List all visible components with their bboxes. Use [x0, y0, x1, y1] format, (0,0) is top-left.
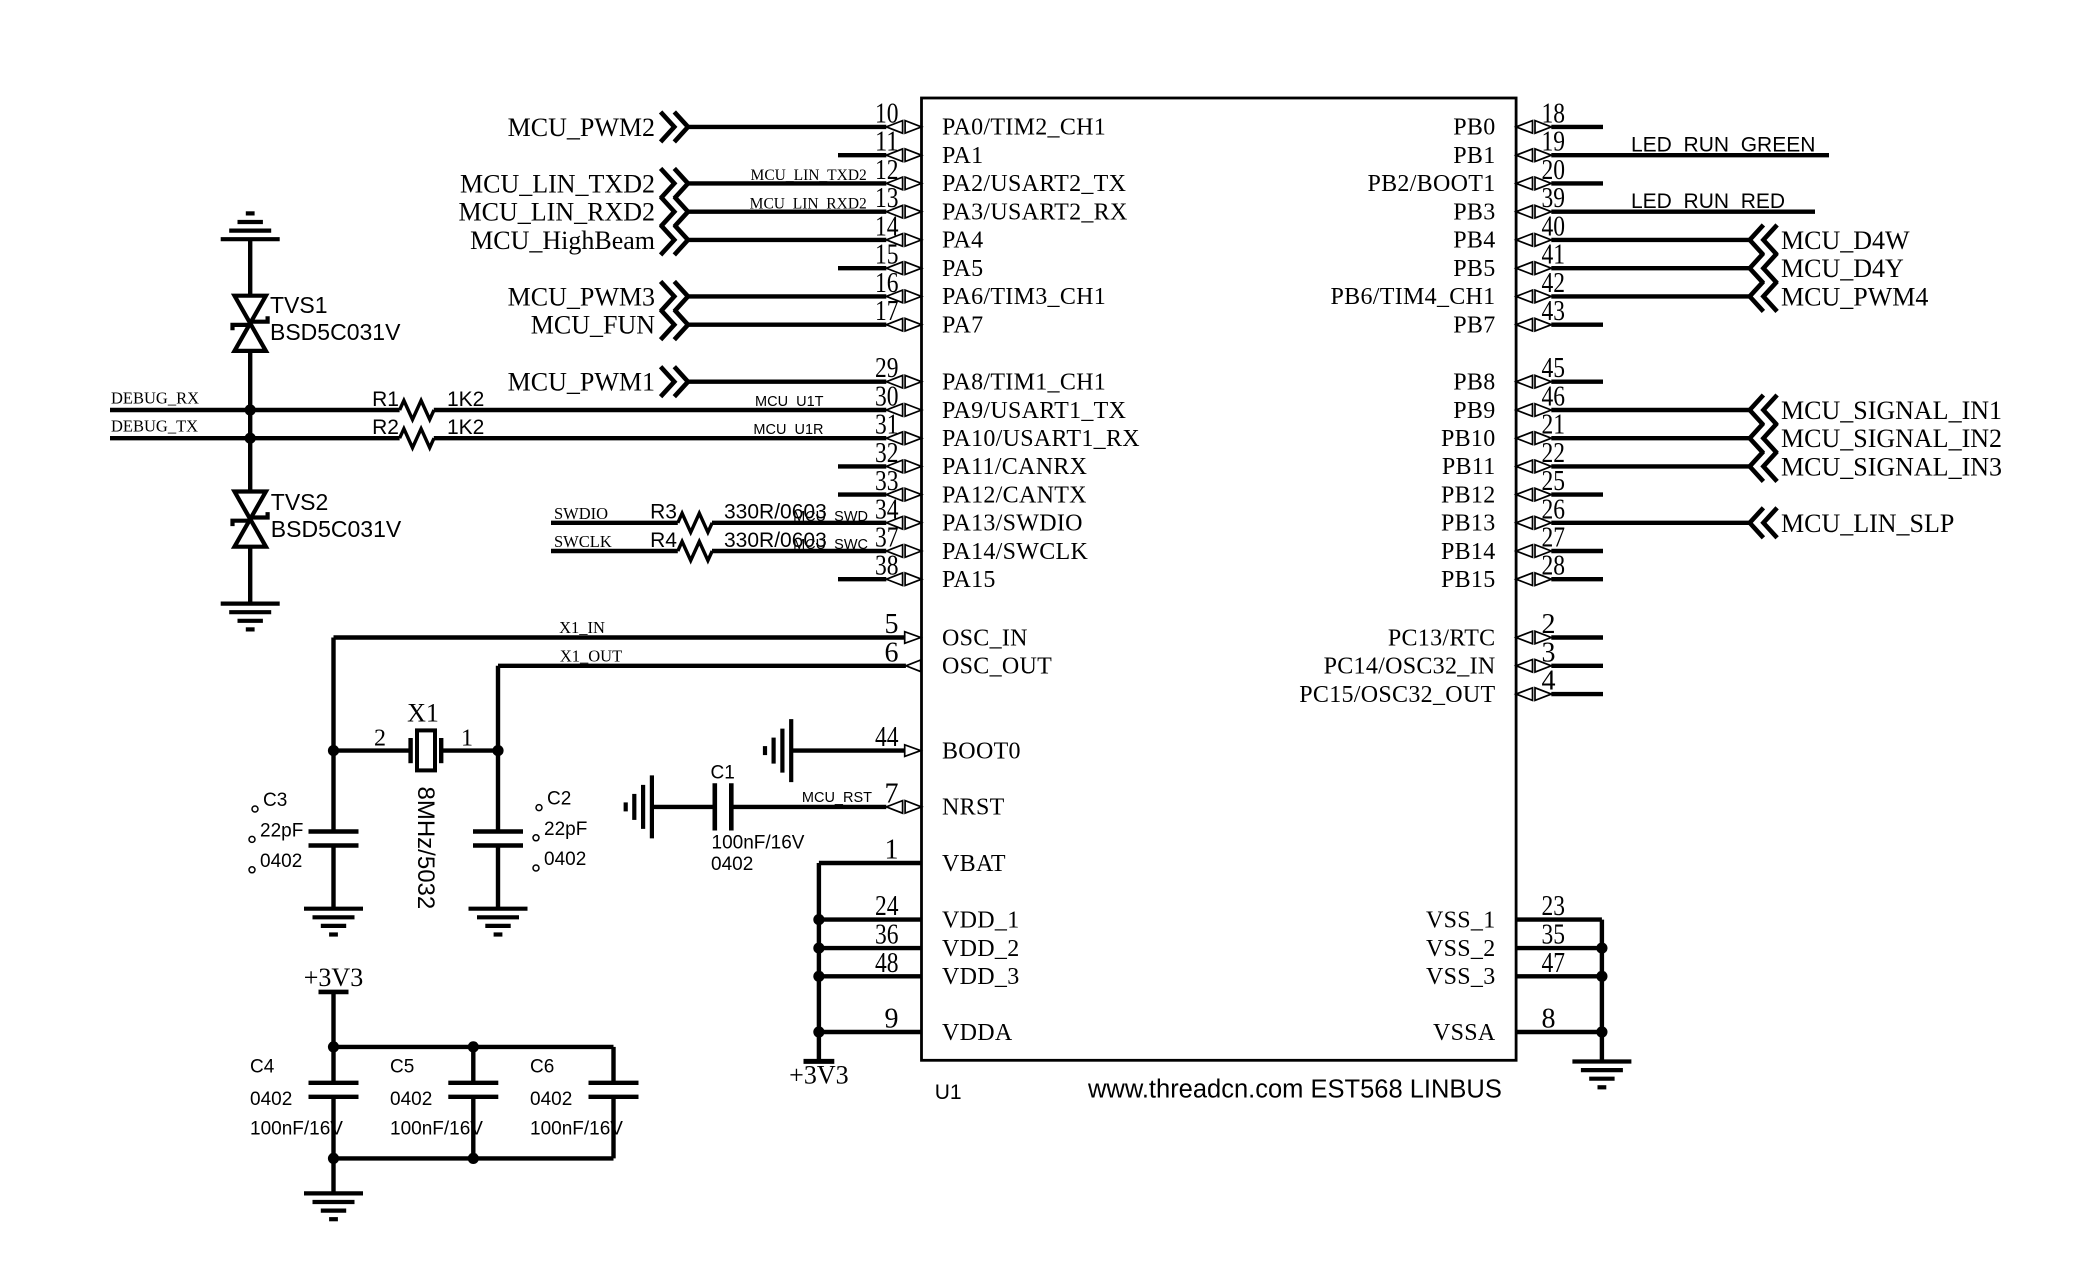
wire right rail down	[496, 666, 500, 751]
capacitor C1	[715, 783, 732, 830]
port MCU_LIN_TXD2	[460, 168, 688, 198]
resistor R2	[400, 429, 434, 448]
wire to TVS2	[248, 438, 252, 491]
svg-text:C5: C5	[390, 1056, 414, 1077]
wire crystal pin1	[441, 748, 498, 752]
svg-text:0402: 0402	[544, 849, 586, 870]
wire	[611, 1097, 615, 1159]
pin 37 PA14/SWCLK	[875, 523, 1089, 565]
wire stub	[1551, 664, 1603, 668]
port MCU_D4W	[1750, 225, 1910, 255]
pin 40 PB4	[1453, 211, 1565, 253]
wire MCU_PWM1 to pin	[688, 380, 886, 384]
svg-text:OSC_OUT: OSC_OUT	[942, 654, 1052, 680]
svg-text:MCU_PWM3: MCU_PWM3	[508, 282, 655, 311]
svg-text:PA7: PA7	[942, 313, 983, 339]
wire MCU_D4W	[1551, 238, 1749, 242]
wire	[471, 1047, 475, 1083]
svg-text:BSD5C031V: BSD5C031V	[270, 319, 401, 345]
wire to ground	[331, 1158, 335, 1193]
wire X1_IN	[334, 635, 905, 639]
wire	[331, 1097, 335, 1159]
pin 1 VBAT	[885, 835, 1006, 877]
wire stub	[1551, 635, 1603, 639]
pin 25 PB12	[1441, 466, 1565, 508]
svg-text:PB5: PB5	[1453, 256, 1495, 282]
svg-text:MCU_PWM4: MCU_PWM4	[1781, 282, 1928, 311]
wire top rail	[334, 1045, 614, 1049]
pin 19 PB1	[1453, 127, 1565, 169]
IC U1 MCU body	[922, 98, 1517, 1060]
pin 21 PB10	[1441, 410, 1565, 452]
wire TVS2 to ground	[248, 547, 252, 603]
pin 23 VSS_1	[1426, 891, 1565, 933]
pin 24 VDD_1	[875, 891, 1020, 933]
svg-text:1: 1	[461, 725, 473, 751]
capacitor C3	[309, 832, 359, 846]
svg-text:R4: R4	[650, 529, 677, 552]
wire LED_RUN_RED	[1551, 209, 1815, 213]
svg-text:NRST: NRST	[942, 795, 1005, 821]
wire MCU_PWM3 to pin	[688, 294, 886, 298]
wire BOOT0	[791, 748, 905, 752]
wire MCU_D4Y	[1551, 266, 1749, 270]
wire MCU_SWC	[712, 549, 886, 553]
capacitor C2	[473, 832, 523, 846]
pin 3 PC14/OSC32_IN	[1324, 637, 1556, 679]
wire ground to TVS1	[248, 239, 252, 295]
pin 35 VSS_2	[1426, 920, 1565, 962]
pin 41 PB5	[1453, 240, 1565, 282]
ground (BOOT0)	[765, 719, 791, 782]
svg-text:PB2/BOOT1: PB2/BOOT1	[1367, 171, 1495, 197]
svg-text:PB14: PB14	[1441, 539, 1496, 565]
wire MCU_RST	[731, 805, 886, 809]
pin 13 PA3/USART2_RX	[875, 183, 1128, 225]
wire stub	[1551, 181, 1603, 185]
svg-text:MCU_PWM2: MCU_PWM2	[508, 113, 655, 142]
wire stub	[838, 464, 886, 468]
capacitor C6	[589, 1083, 639, 1097]
svg-text:PA12/CANTX: PA12/CANTX	[942, 482, 1087, 508]
wire VDD	[819, 1030, 922, 1034]
pin 32 PA11/CANRX	[875, 438, 1087, 480]
svg-text:MCU_SIGNAL_IN1: MCU_SIGNAL_IN1	[1781, 396, 2002, 425]
wire stub	[1551, 380, 1603, 384]
svg-text:MCU_LIN_SLP: MCU_LIN_SLP	[1781, 509, 1954, 538]
svg-text:BSD5C031V: BSD5C031V	[271, 516, 402, 542]
wire stub	[838, 492, 886, 496]
wire +3V3 rail	[817, 863, 821, 1061]
svg-text:0402: 0402	[711, 854, 753, 875]
svg-text:PB13: PB13	[1441, 511, 1496, 537]
svg-text:VDD_2: VDD_2	[942, 936, 1020, 962]
svg-text:R1: R1	[372, 388, 399, 411]
svg-text:MCU_SIGNAL_IN3: MCU_SIGNAL_IN3	[1781, 452, 2002, 481]
wire VSS	[1516, 974, 1602, 978]
svg-text:X1_OUT: X1_OUT	[560, 646, 622, 665]
junction VDD rail	[813, 1026, 824, 1037]
wire SWDIO	[551, 521, 678, 525]
junction VSS rail	[1596, 1026, 1607, 1037]
svg-text:MCU_D4W: MCU_D4W	[1781, 226, 1910, 255]
resistor R3	[678, 513, 712, 532]
wire X1_OUT	[498, 664, 906, 668]
svg-text:22pF: 22pF	[544, 819, 587, 840]
svg-text:SWCLK: SWCLK	[554, 532, 612, 551]
svg-text:C3: C3	[263, 790, 287, 811]
svg-text:U1: U1	[935, 1081, 962, 1104]
svg-text:R2: R2	[372, 416, 399, 439]
port MCU_SIGNAL_IN1	[1750, 395, 2002, 425]
junction VSS rail	[1596, 943, 1607, 954]
svg-text:0402: 0402	[250, 1089, 292, 1110]
svg-text:7: 7	[885, 778, 899, 809]
ground (C3)	[304, 909, 363, 935]
pin 30 PA9/USART1_TX	[875, 382, 1126, 424]
wire stub	[838, 153, 886, 157]
ground (VSS)	[1572, 1062, 1631, 1088]
svg-text:+3V3: +3V3	[304, 963, 363, 992]
port MCU_FUN	[531, 310, 688, 340]
pin 15 PA5	[875, 240, 983, 282]
svg-text:DEBUG_RX: DEBUG_RX	[111, 389, 199, 408]
svg-text:TVS1: TVS1	[270, 292, 328, 318]
svg-text:PB15: PB15	[1441, 567, 1496, 593]
junction VDD rail	[813, 914, 824, 925]
junction C4 bottom	[328, 1153, 339, 1164]
wire MCU_HighBeam to pin	[688, 238, 886, 242]
svg-text:LED_RUN_RED: LED_RUN_RED	[1631, 190, 1785, 213]
svg-text:MCU_LIN_TXD2: MCU_LIN_TXD2	[751, 167, 867, 184]
svg-text:PA10/USART1_RX: PA10/USART1_RX	[942, 426, 1140, 452]
svg-text:0402: 0402	[390, 1089, 432, 1110]
wire stub	[1551, 577, 1603, 581]
svg-text:X1_IN: X1_IN	[559, 618, 605, 637]
pin 4 PC15/OSC32_OUT	[1299, 666, 1555, 708]
svg-text:PA6/TIM3_CH1: PA6/TIM3_CH1	[942, 284, 1106, 310]
svg-text:PA8/TIM1_CH1: PA8/TIM1_CH1	[942, 370, 1106, 396]
svg-text:100nF/16V: 100nF/16V	[712, 832, 805, 853]
pin 38 PA15	[875, 551, 996, 593]
pin 45 PB8	[1453, 353, 1565, 395]
svg-text:MCU_LIN_RXD2: MCU_LIN_RXD2	[459, 198, 655, 227]
wire stub	[1551, 492, 1603, 496]
svg-text:+3V3: +3V3	[789, 1061, 848, 1090]
port MCU_HighBeam	[470, 225, 688, 255]
wire MCU_PWM4	[1551, 294, 1749, 298]
svg-text:C6: C6	[530, 1056, 554, 1077]
wire DEBUG_RX	[110, 408, 400, 412]
svg-text:PA4: PA4	[942, 228, 983, 254]
wire MCU_PWM2 to pin	[688, 125, 886, 129]
pin 11 PA1	[875, 127, 983, 169]
wire stub	[838, 577, 886, 581]
pin 20 PB2/BOOT1	[1367, 155, 1565, 197]
svg-text:PC14/OSC32_IN: PC14/OSC32_IN	[1324, 654, 1496, 680]
pin 12 PA2/USART2_TX	[875, 155, 1126, 197]
wire MCU_LIN_TXD2 to pin	[688, 181, 886, 185]
wire down to C3	[331, 751, 335, 832]
wire SWCLK	[551, 549, 678, 553]
svg-text:PB4: PB4	[1453, 228, 1495, 254]
port MCU_PWM3	[508, 281, 688, 311]
crystal X1	[411, 730, 442, 770]
wire C3 to ground	[331, 846, 335, 909]
svg-text:0402: 0402	[260, 851, 302, 872]
resistor R4	[678, 542, 712, 561]
svg-text:MCU_LIN_TXD2: MCU_LIN_TXD2	[460, 169, 655, 198]
junction DEBUG_RX	[245, 404, 256, 415]
svg-text:PA3/USART2_RX: PA3/USART2_RX	[942, 200, 1128, 226]
wire VSS	[1516, 946, 1602, 950]
ground (C4)	[304, 1193, 363, 1219]
TVS diode TVS1	[233, 296, 268, 351]
port MCU_PWM4	[1750, 281, 1929, 311]
svg-text:BOOT0: BOOT0	[942, 738, 1021, 764]
pin 46 PB9	[1453, 382, 1565, 424]
svg-text:PB9: PB9	[1453, 398, 1495, 424]
pin 26 PB13	[1441, 494, 1565, 536]
resistor R1	[400, 401, 434, 420]
wire stub	[1551, 549, 1603, 553]
junction C5 bottom	[468, 1153, 479, 1164]
svg-text:C4: C4	[250, 1056, 275, 1077]
ground (below TVS2)	[221, 604, 280, 630]
svg-text:VDD_3: VDD_3	[942, 964, 1020, 990]
wire MCU_FUN to pin	[688, 323, 886, 327]
svg-text:MCU_D4Y: MCU_D4Y	[1781, 254, 1904, 283]
svg-text:1K2: 1K2	[447, 416, 484, 439]
pin 34 PA13/SWDIO	[875, 494, 1083, 536]
TVS diode TVS2	[233, 492, 268, 547]
svg-text:PB10: PB10	[1441, 426, 1496, 452]
wire MCU_U1R	[434, 436, 887, 440]
junction C4 top	[328, 1041, 339, 1052]
power +3V3 (decoupling)	[304, 963, 363, 992]
capacitor C5	[448, 1083, 498, 1097]
port MCU_D4Y	[1750, 253, 1904, 283]
svg-text:0402: 0402	[530, 1089, 572, 1110]
wire MCU_SIGNAL_IN1	[1551, 408, 1749, 412]
port MCU_SIGNAL_IN2	[1750, 423, 2002, 453]
wire MCU_LIN_RXD2 to pin	[688, 209, 886, 213]
pin 48 VDD_3	[875, 948, 1020, 990]
pin 42 PB6/TIM4_CH1	[1331, 268, 1565, 310]
svg-text:PB1: PB1	[1453, 143, 1495, 169]
svg-text:PA2/USART2_TX: PA2/USART2_TX	[942, 171, 1126, 197]
svg-text:VSS_3: VSS_3	[1426, 964, 1496, 990]
pin 18 PB0	[1453, 98, 1565, 140]
svg-text:VDD_1: VDD_1	[942, 907, 1020, 933]
wire MCU_LIN_SLP	[1551, 521, 1749, 525]
svg-text:SWDIO: SWDIO	[554, 504, 608, 523]
wire VSS	[1516, 1030, 1602, 1034]
wire LED_RUN_GREEN	[1551, 153, 1829, 157]
ground (C1)	[626, 775, 652, 838]
svg-text:VDDA: VDDA	[942, 1020, 1013, 1046]
pin 31 PA10/USART1_RX	[875, 410, 1140, 452]
pin 8 VSSA	[1433, 1004, 1556, 1046]
wire stub	[1551, 125, 1603, 129]
junction DEBUG_TX	[245, 433, 256, 444]
pin 10 PA0/TIM2_CH1	[875, 98, 1106, 140]
wire	[471, 1097, 475, 1159]
pin 44 BOOT0	[875, 722, 1021, 764]
wire left rail down	[331, 638, 335, 751]
svg-text:PC15/OSC32_OUT: PC15/OSC32_OUT	[1299, 682, 1495, 708]
pin 9 VDDA	[885, 1004, 1013, 1046]
wire VDD	[819, 974, 922, 978]
svg-text:DEBUG_TX: DEBUG_TX	[111, 417, 198, 436]
wire VDD	[819, 946, 922, 950]
svg-text:PB8: PB8	[1453, 370, 1495, 396]
pin 16 PA6/TIM3_CH1	[875, 268, 1106, 310]
svg-text:PB6/TIM4_CH1: PB6/TIM4_CH1	[1331, 284, 1496, 310]
wire stub	[1551, 323, 1603, 327]
wire VBAT	[819, 861, 922, 865]
pin 27 PB14	[1441, 523, 1565, 565]
wire MCU_SIGNAL_IN2	[1551, 436, 1749, 440]
svg-text:VSSA: VSSA	[1433, 1020, 1496, 1046]
svg-text:PB7: PB7	[1453, 313, 1495, 339]
wire VDD	[819, 917, 922, 921]
svg-text:100nF/16V: 100nF/16V	[530, 1119, 623, 1140]
svg-text:MCU_RST: MCU_RST	[802, 790, 872, 806]
wire MCU_SIGNAL_IN3	[1551, 464, 1749, 468]
svg-text:MCU_PWM1: MCU_PWM1	[508, 368, 655, 397]
svg-text:LED_RUN_GREEN: LED_RUN_GREEN	[1631, 134, 1815, 157]
wire	[248, 410, 252, 438]
port MCU_LIN_RXD2	[459, 197, 688, 227]
wire MCU_U1T	[434, 408, 887, 412]
junction C5 top	[468, 1041, 479, 1052]
svg-text:PB12: PB12	[1441, 482, 1496, 508]
svg-text:MCU_U1R: MCU_U1R	[753, 422, 823, 438]
junction crystal right	[492, 745, 503, 756]
wire VSS rail	[1600, 920, 1604, 1062]
svg-text:MCU_U1T: MCU_U1T	[755, 394, 824, 410]
wire VSS	[1516, 917, 1602, 921]
wire +3V3 down	[331, 992, 335, 1047]
svg-text:8MHz/5032: 8MHz/5032	[412, 787, 439, 910]
svg-text:MCU_LIN_RXD2: MCU_LIN_RXD2	[750, 196, 867, 213]
pin 36 VDD_2	[875, 920, 1020, 962]
junction crystal left	[328, 745, 339, 756]
junction VDD rail	[813, 943, 824, 954]
pin 7 NRST	[885, 778, 1005, 820]
svg-text:PB0: PB0	[1453, 115, 1495, 141]
power +3V3 (MCU)	[789, 1061, 848, 1090]
pin 22 PB11	[1442, 438, 1565, 480]
svg-text:C1: C1	[711, 762, 735, 783]
svg-text:100nF/16V: 100nF/16V	[250, 1119, 343, 1140]
svg-text:PA1: PA1	[942, 143, 983, 169]
svg-text:PA5: PA5	[942, 256, 983, 282]
wire	[331, 1047, 335, 1083]
svg-text:1K2: 1K2	[447, 388, 484, 411]
svg-text:TVS2: TVS2	[271, 489, 329, 515]
pin 39 PB3	[1453, 183, 1565, 225]
ground (top)	[221, 213, 280, 239]
port MCU_SIGNAL_IN3	[1750, 451, 2002, 481]
pin 29 PA8/TIM1_CH1	[875, 353, 1106, 395]
wire DEBUG_TX	[110, 436, 400, 440]
port MCU_PWM2	[508, 112, 688, 142]
svg-text:VBAT: VBAT	[942, 851, 1006, 877]
svg-text:PA9/USART1_TX: PA9/USART1_TX	[942, 398, 1126, 424]
pin 6 OSC_OUT	[885, 637, 1053, 679]
svg-text:MCU_HighBeam: MCU_HighBeam	[470, 226, 655, 255]
svg-text:C2: C2	[547, 789, 571, 810]
pin 17 PA7	[875, 296, 983, 338]
wire ground to C1	[652, 805, 715, 809]
port MCU_LIN_SLP	[1750, 508, 1955, 538]
svg-text:PA0/TIM2_CH1: PA0/TIM2_CH1	[942, 115, 1106, 141]
svg-text:VSS_2: VSS_2	[1426, 936, 1496, 962]
pin 47 VSS_3	[1426, 948, 1565, 990]
pin 2 PC13/RTC	[1388, 609, 1556, 651]
svg-text:MCU_FUN: MCU_FUN	[531, 311, 655, 340]
svg-text:PA14/SWCLK: PA14/SWCLK	[942, 539, 1089, 565]
svg-text:PB3: PB3	[1453, 200, 1495, 226]
wire stub	[838, 266, 886, 270]
junction VDD rail	[813, 971, 824, 982]
wire bottom rail	[334, 1156, 614, 1160]
svg-text:X1: X1	[407, 699, 439, 728]
pin 33 PA12/CANTX	[875, 466, 1087, 508]
svg-text:PA15: PA15	[942, 567, 996, 593]
wire down to C2	[496, 751, 500, 832]
svg-text:PA13/SWDIO: PA13/SWDIO	[942, 511, 1083, 537]
pin 14 PA4	[875, 211, 983, 253]
svg-text:PB11: PB11	[1442, 454, 1496, 480]
wire stub	[1551, 692, 1603, 696]
wire TVS1 to DEBUG_RX	[248, 351, 252, 410]
svg-text:PA11/CANRX: PA11/CANRX	[942, 454, 1087, 480]
port MCU_PWM1	[508, 367, 688, 397]
wire MCU_SWD	[712, 521, 886, 525]
svg-text:R3: R3	[650, 501, 677, 524]
wire	[611, 1047, 615, 1083]
svg-text:www.threadcn.com EST568 LINBUS: www.threadcn.com EST568 LINBUS	[1087, 1076, 1502, 1104]
svg-text:100nF/16V: 100nF/16V	[390, 1119, 483, 1140]
svg-text:MCU_SIGNAL_IN2: MCU_SIGNAL_IN2	[1781, 424, 2002, 453]
ground (C2)	[469, 909, 528, 935]
wire C2 to ground	[496, 846, 500, 909]
pin 43 PB7	[1453, 296, 1565, 338]
pin 5 OSC_IN	[885, 609, 1028, 651]
pin 28 PB15	[1441, 551, 1565, 593]
svg-text:PC13/RTC: PC13/RTC	[1388, 625, 1496, 651]
capacitor C4	[309, 1083, 359, 1097]
junction VSS rail	[1596, 971, 1607, 982]
wire to crystal pin2	[334, 748, 411, 752]
svg-text:OSC_IN: OSC_IN	[942, 625, 1028, 651]
svg-text:2: 2	[374, 725, 386, 751]
svg-text:VSS_1: VSS_1	[1426, 907, 1496, 933]
svg-text:22pF: 22pF	[260, 820, 303, 841]
